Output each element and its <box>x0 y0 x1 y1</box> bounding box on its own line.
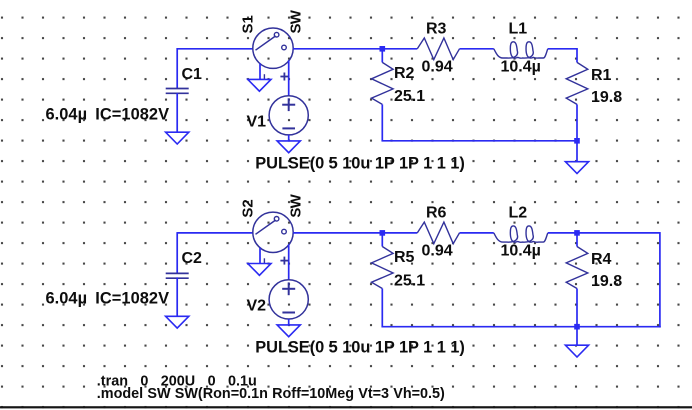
svg-text:SW: SW <box>287 193 304 217</box>
wire node E to ground <box>576 327 578 346</box>
inductor L1 <box>494 42 548 58</box>
wire L2 to R4 <box>548 232 578 234</box>
ground below V2 <box>277 325 300 337</box>
svg-text:SW: SW <box>287 9 304 33</box>
resistor R2 <box>372 49 394 141</box>
ground below V1 <box>277 141 300 153</box>
svg-text:S1: S1 <box>240 15 257 33</box>
svg-text:.model SW SW(Ron=0.1n Roff=10M: .model SW SW(Ron=0.1n Roff=10Meg Vt=3 Vh… <box>97 386 445 402</box>
wire V1 to ground <box>288 135 290 141</box>
ground below R1 <box>565 162 588 174</box>
switch S2 control + marker <box>280 257 288 265</box>
wire S1 to R3 <box>293 48 417 50</box>
junction node C <box>380 230 386 236</box>
svg-text:C1: C1 <box>182 66 203 83</box>
switch S2 <box>253 212 293 263</box>
capacitor C1 <box>166 89 189 94</box>
wire node B to ground <box>576 141 578 162</box>
svg-text:PULSE(0 5 10u 1P 1P 1 1 1): PULSE(0 5 10u 1P 1P 1 1 1) <box>255 155 464 173</box>
switch S1 <box>253 28 293 79</box>
wire C1 top lead <box>176 48 178 88</box>
wire bottom rail top circuit <box>381 140 577 142</box>
voltage source V2 <box>269 280 308 319</box>
junction node D <box>574 230 580 236</box>
voltage source V1 <box>269 96 308 135</box>
svg-text:V2: V2 <box>247 297 267 314</box>
wire right loop bottom <box>576 326 661 328</box>
wire C2 top lead <box>176 232 178 272</box>
switch S1 control + marker <box>280 73 288 81</box>
resistor R4 <box>566 233 588 327</box>
resistor R1 <box>566 49 588 141</box>
svg-text:R5: R5 <box>394 249 415 266</box>
svg-text:R3: R3 <box>426 21 447 38</box>
svg-text:S2: S2 <box>240 199 257 217</box>
wire S1 minus pin to ground <box>259 64 261 80</box>
svg-text:V1: V1 <box>247 113 267 130</box>
svg-text:10.4µ: 10.4µ <box>501 59 541 76</box>
wire S2 to R6 <box>293 232 417 234</box>
wire C2 bottom lead <box>176 277 178 316</box>
capacitor C2 <box>166 273 189 278</box>
wire S2 plus pin to V2 <box>288 244 290 279</box>
wire node D to right loop top <box>577 232 660 234</box>
ground below C1 <box>166 132 189 144</box>
resistor R3 <box>417 38 459 60</box>
svg-text:R1: R1 <box>591 67 612 84</box>
wire bottom rail lower circuit <box>381 326 577 328</box>
svg-text:10.4µ: 10.4µ <box>501 243 541 260</box>
wire R3 to L1 <box>460 48 494 50</box>
wire S1 plus pin to V1 <box>288 60 290 95</box>
wire V2 to ground <box>288 319 290 325</box>
svg-text:25.1: 25.1 <box>394 88 425 105</box>
svg-text:6.04µ IC=1082V: 6.04µ IC=1082V <box>46 289 170 307</box>
resistor R5 <box>372 233 394 327</box>
wire C1 bottom lead <box>176 93 178 132</box>
svg-text:25.1: 25.1 <box>394 272 425 289</box>
svg-text:19.8: 19.8 <box>591 89 622 106</box>
wire C1 to S1 <box>177 48 253 50</box>
inductor L2 <box>494 226 548 242</box>
svg-text:L1: L1 <box>509 21 528 38</box>
wire L1 to R1 <box>548 48 578 50</box>
svg-text:R6: R6 <box>426 205 447 222</box>
svg-text:R2: R2 <box>394 65 415 82</box>
svg-text:C2: C2 <box>182 250 203 267</box>
wire right loop vertical <box>659 232 661 327</box>
resistor R6 <box>417 222 459 244</box>
svg-text:6.04µ IC=1082V: 6.04µ IC=1082V <box>46 105 170 123</box>
ground below S2 <box>248 264 271 276</box>
ground below C2 <box>166 316 189 328</box>
junction node B <box>574 138 580 144</box>
ground below S1 <box>248 79 271 91</box>
svg-text:19.8: 19.8 <box>591 273 622 290</box>
wire S2 minus pin to ground <box>259 248 261 264</box>
svg-text:L2: L2 <box>509 205 528 222</box>
svg-text:0.94: 0.94 <box>422 59 453 76</box>
ground below R4 <box>565 345 588 357</box>
wire R6 to L2 <box>460 232 494 234</box>
wire C2 to S2 <box>177 232 253 234</box>
svg-text:PULSE(0 5 10u 1P 1P 1 1 1): PULSE(0 5 10u 1P 1P 1 1 1) <box>255 339 464 357</box>
svg-text:0.94: 0.94 <box>422 243 453 260</box>
junction node E <box>574 324 580 330</box>
svg-text:R4: R4 <box>591 251 612 268</box>
junction node A <box>380 46 386 52</box>
